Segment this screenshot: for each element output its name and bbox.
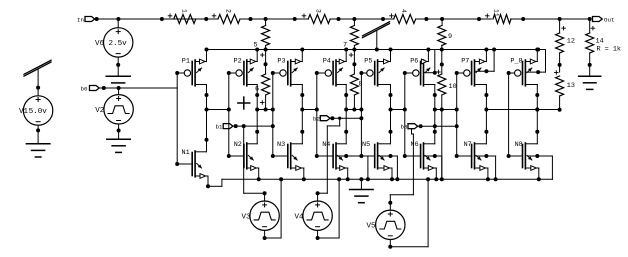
label N2: [234, 141, 242, 149]
wire gate column stage 3: [272, 73, 274, 156]
ground on gnd rail: [350, 179, 374, 202]
node N5 source: [390, 177, 394, 181]
node N6 drain: [433, 130, 437, 134]
node P3 source: [300, 48, 304, 52]
wire drain column stage 5: [390, 95, 392, 132]
wire R11 to Out: [511, 18, 590, 20]
node N4 source: [346, 177, 350, 181]
wire drain column stage 2: [256, 95, 258, 132]
label N5: [362, 141, 370, 149]
node b3 end: [455, 124, 459, 128]
node V5 gnd: [426, 177, 430, 181]
node top rail a9: [477, 17, 481, 21]
svg-text:5.0v: 5.0v: [29, 108, 48, 116]
resistor R7: [343, 19, 358, 50]
wire N8 bulk to gnd rail end: [528, 156, 553, 179]
node V3 gnd: [279, 177, 283, 181]
node N6 source: [434, 177, 438, 181]
label P3: [277, 57, 285, 65]
svg-text:R = 1k: R = 1k: [597, 46, 621, 54]
node drain stub stage 6: [433, 108, 437, 112]
svg-text:3: 3: [315, 9, 322, 13]
node R8 bottom junction: [352, 108, 356, 112]
node N1 drain: [205, 138, 209, 142]
node P2 source: [255, 48, 259, 52]
resistor R5: [254, 19, 270, 50]
node P4 source: [344, 48, 348, 52]
svg-text:V5: V5: [367, 223, 377, 231]
port b0: [81, 85, 100, 92]
node gnd rail R10: [440, 177, 444, 181]
label P6: [410, 57, 418, 65]
node stub2 left: [227, 108, 231, 112]
port b2: [313, 116, 330, 123]
node P6 source: [426, 48, 430, 52]
label V3: [242, 214, 252, 222]
wire gate column stage 6: [404, 73, 406, 156]
wire P7 bulk to vdd: [476, 50, 495, 72]
node In: [95, 17, 99, 21]
svg-text:Out: Out: [604, 16, 614, 23]
nmos N4: [317, 132, 348, 171]
svg-text:14: 14: [596, 38, 604, 46]
node P6 bulk: [433, 71, 437, 75]
node N3 drain: [300, 130, 304, 134]
wire N7 bulk to gnd: [476, 156, 496, 179]
wire N4 bulk to gnd: [337, 156, 368, 179]
node stage8 drain junction: [535, 108, 539, 112]
svg-text:N3: N3: [277, 141, 285, 149]
wire b1 to V3 plus: [244, 126, 265, 201]
pmos P4: [317, 50, 346, 96]
label P1: [182, 57, 190, 65]
svg-text:2: 2: [225, 9, 232, 13]
voltage source V5: [376, 210, 405, 239]
ground below V6: [106, 76, 130, 83]
label N3: [277, 141, 285, 149]
label P4: [323, 57, 331, 65]
node N8 bulk: [535, 154, 539, 158]
node R5 vdd: [264, 48, 268, 52]
wire N5 bulk to gnd: [379, 156, 398, 179]
wire N5 source to gnd rail: [391, 168, 393, 179]
node R10 junction: [440, 108, 444, 112]
label P2: [234, 57, 242, 65]
node P7 drain: [484, 93, 488, 97]
node N5 bulk: [389, 154, 393, 158]
node P3 gate: [271, 71, 275, 75]
resistor R8: [349, 50, 362, 110]
node drain stub stage 1: [205, 108, 209, 112]
svg-text:V2: V2: [95, 107, 104, 115]
voltage source V3: [250, 201, 279, 230]
node P1 source: [205, 48, 209, 52]
wire V1 to ground: [37, 125, 39, 143]
vdd supply symbol on rail: [363, 22, 390, 38]
node R13 bottom: [558, 108, 562, 112]
node V5 plus: [388, 201, 392, 205]
node N4 gate: [315, 154, 319, 158]
wire b3 net: [418, 125, 457, 127]
svg-text:In: In: [77, 16, 84, 23]
wire drain column stage 1: [206, 95, 208, 140]
wire gate column stage 8: [508, 73, 510, 156]
svg-text:10: 10: [449, 83, 457, 91]
label N4: [322, 141, 330, 149]
node b3 R10 tap: [433, 124, 437, 128]
node R6 mid: [264, 62, 268, 66]
node P2 drain: [255, 93, 259, 97]
label R = 1k: [597, 46, 621, 54]
svg-text:N5: N5: [362, 141, 370, 149]
svg-text:P3: P3: [277, 57, 285, 65]
wire R2 to R3: [240, 18, 308, 20]
node R14 ground: [588, 63, 592, 67]
probe plus marker: [238, 97, 250, 109]
node N1 gate: [175, 162, 179, 166]
wire V4 minus to gnd rail: [318, 179, 340, 238]
pmos P7: [457, 50, 487, 96]
node N2 gate: [227, 154, 231, 158]
wire V1 plus to vdd: [37, 69, 39, 96]
svg-text:P7: P7: [461, 57, 469, 65]
wire gate column stage 5: [360, 73, 362, 156]
node gnd rail ground stem: [359, 177, 363, 181]
voltage source V2: [104, 88, 133, 124]
resistor R6: [255, 50, 270, 110]
svg-text:P5: P5: [364, 57, 372, 65]
node b1: [234, 124, 238, 128]
svg-text:2.5v: 2.5v: [109, 40, 128, 48]
svg-text:V3: V3: [242, 214, 252, 222]
wire gate column stage 4: [316, 73, 318, 156]
wire R3 to R4: [330, 18, 394, 20]
nmos N5: [361, 132, 392, 171]
voltage source V6: [104, 19, 133, 57]
node P7 bulk vdd: [492, 48, 496, 52]
node top rail a5: [293, 17, 297, 21]
node R7 vdd: [352, 48, 356, 52]
wire stub stage4 to gate5: [346, 109, 361, 111]
wire N6 source to gnd rail: [435, 168, 437, 179]
node drain stub stage 8: [535, 108, 539, 112]
node b0: [102, 86, 106, 90]
label P8: [510, 57, 522, 65]
node N8 gate: [507, 154, 511, 158]
node V3 minus: [263, 236, 267, 240]
resistor R14 load: [586, 19, 604, 65]
node N7 gate: [455, 154, 459, 158]
svg-text:b2: b2: [313, 116, 320, 123]
wire vdd rail: [206, 49, 545, 51]
pmos P8: [509, 50, 538, 96]
node P5 gate: [359, 71, 363, 75]
node P6 drain: [433, 93, 437, 97]
wire V2 to ground: [118, 124, 120, 139]
svg-text:b0: b0: [81, 85, 88, 92]
label V2: [95, 107, 104, 115]
resistor R9: [438, 19, 452, 50]
node V2 plus: [117, 86, 121, 90]
node P1 gate: [175, 71, 179, 75]
wire P6 bulk to vdd: [425, 50, 435, 73]
svg-text:P6: P6: [410, 57, 418, 65]
node R12 R13 junction: [558, 63, 562, 67]
node R12 tap: [558, 17, 562, 21]
node V3 plus: [263, 191, 267, 195]
pmos P1: [177, 50, 206, 96]
port Out: [593, 16, 615, 23]
svg-text:13: 13: [567, 82, 575, 90]
wire N2 source to gnd rail: [258, 168, 260, 179]
node top rail a1: [116, 17, 120, 21]
wire R14 to ground: [589, 65, 591, 76]
node N8 drain: [535, 130, 539, 134]
svg-text:V4: V4: [295, 214, 305, 222]
node V4 minus: [316, 236, 320, 240]
resistor R12: [556, 19, 575, 72]
node b3: [419, 124, 423, 128]
label V4: [295, 214, 305, 222]
node N2 source: [257, 177, 261, 181]
node V4 plus: [316, 191, 320, 195]
wire N6 bulk to gnd: [425, 156, 442, 179]
svg-text:P_8: P_8: [510, 57, 522, 65]
node drain stub stage 4: [344, 108, 348, 112]
voltage source V4: [303, 201, 332, 230]
svg-text:P4: P4: [323, 57, 331, 65]
svg-text:V1: V1: [19, 108, 29, 116]
node V1 minus: [36, 128, 40, 132]
node P4 drain: [344, 93, 348, 97]
node P6 gate: [403, 71, 407, 75]
node b1 end: [271, 124, 275, 128]
wire vdd symbol stem: [376, 30, 378, 50]
node R8 mid: [352, 62, 356, 66]
wire drain column stage 7: [485, 95, 487, 132]
node N5 bulk gnd: [395, 177, 399, 181]
value 5.0v: [29, 108, 48, 116]
node V6 minus: [116, 63, 120, 67]
node N5 gate: [359, 154, 363, 158]
wire b2 net: [330, 117, 361, 119]
resistor R10: [437, 50, 457, 180]
node R9 vdd: [440, 48, 444, 52]
wire P8 bulk to vdd rail end: [527, 50, 546, 73]
wire stub stage2 to gate3: [257, 109, 273, 111]
wire V3 minus to gnd rail: [265, 179, 282, 238]
svg-text:N4: N4: [322, 141, 330, 149]
node V2 minus: [117, 129, 121, 133]
label N8: [515, 141, 523, 149]
label N7: [464, 141, 472, 149]
node P8 bulk: [536, 70, 540, 74]
node N5 drain: [389, 130, 393, 134]
node b2: [330, 116, 334, 120]
node R6 bottom junction: [264, 108, 268, 112]
wire N4 source to gnd rail: [347, 168, 349, 179]
node top rail a7: [381, 17, 385, 21]
pmos P6: [405, 50, 435, 96]
svg-text:N2: N2: [234, 141, 242, 149]
svg-text:8: 8: [359, 81, 363, 89]
label V6: [95, 40, 105, 48]
node b2 end: [359, 116, 363, 120]
node P5 source: [389, 48, 393, 52]
node stub3 right: [271, 108, 275, 112]
svg-text:11: 11: [493, 9, 500, 17]
node N1 source: [206, 184, 210, 188]
ground below V2: [107, 139, 131, 152]
wire gate column stage 7: [456, 73, 458, 156]
svg-text:P1: P1: [182, 57, 190, 65]
value 2.5v: [109, 40, 128, 48]
node stub6 right: [403, 108, 407, 112]
node drain stub stage 5: [389, 108, 393, 112]
wire drain column stage 8: [536, 95, 538, 132]
port b1: [216, 124, 233, 131]
svg-text:12: 12: [567, 38, 575, 46]
node N8 source: [537, 177, 541, 181]
svg-text:N6: N6: [411, 141, 419, 149]
node R9 tap: [440, 17, 444, 21]
wire stub stage6 to gate7: [435, 109, 457, 111]
ground below R14: [579, 76, 601, 89]
wire R4 to R11: [416, 18, 492, 20]
node N4 bulk gnd: [366, 177, 370, 181]
node N7 source: [486, 177, 490, 181]
node P2 gate: [227, 71, 231, 75]
wire V5 minus to gnd rail: [390, 179, 428, 246]
vdd supply symbol above V1: [24, 60, 51, 76]
wire N3 source to gnd rail: [303, 168, 305, 179]
node P1 drain: [205, 93, 209, 97]
node drain stub stage 7: [484, 108, 488, 112]
nmos N1: [177, 140, 208, 179]
node P8 drain: [535, 93, 539, 97]
wire gate column stage 2: [228, 73, 230, 156]
voltage source V1: [23, 96, 52, 125]
node V1 plus: [36, 86, 40, 90]
wire stub stage5 to gate6: [391, 109, 405, 111]
node V4 gnd: [337, 177, 341, 181]
node stub4 right: [315, 108, 319, 112]
node N6 gate: [403, 154, 407, 158]
node b2 jog: [338, 117, 341, 120]
wire drain column stage 3: [301, 95, 303, 132]
label N1: [182, 149, 190, 157]
resistor R13: [555, 71, 575, 110]
node stub5 right: [359, 108, 363, 112]
wire stub stage1 to gate2: [207, 109, 229, 111]
wire R1 to R2: [163, 18, 218, 20]
node N6 bulk: [433, 154, 437, 158]
wire b1 net: [233, 125, 273, 127]
port In: [77, 16, 95, 23]
label P5: [364, 57, 372, 65]
node drain stub stage 2: [255, 108, 259, 112]
wire stub stage3 to gate4: [302, 109, 317, 111]
svg-text:V6: V6: [95, 40, 105, 48]
node top rail a4: [249, 17, 253, 21]
wire N8 source to gnd rail: [538, 168, 540, 179]
node Out: [588, 17, 592, 21]
node P7 gate: [455, 71, 459, 75]
node N7 drain: [484, 130, 488, 134]
node R7 tap: [352, 17, 356, 21]
node vdd stem: [375, 48, 379, 52]
resistor R3: [302, 9, 330, 24]
node N3 gate: [271, 154, 275, 158]
node P7 source: [484, 48, 488, 52]
node P5 drain: [389, 93, 393, 97]
ground below V1: [26, 144, 50, 157]
wire b2 to V4 plus: [318, 118, 340, 201]
nmos N8: [509, 132, 539, 171]
resistor R4: [390, 9, 416, 24]
node N2 drain: [255, 130, 259, 134]
resistor R1: [168, 9, 196, 24]
svg-text:1: 1: [181, 9, 188, 13]
node P8 source: [535, 48, 539, 52]
svg-text:N8: N8: [515, 141, 523, 149]
wire drain column stage 6: [434, 95, 436, 132]
svg-text:b3: b3: [401, 124, 408, 131]
node N4 bulk: [344, 154, 348, 158]
wire N7 source to gnd rail: [487, 168, 489, 179]
wire gnd rail: [222, 178, 553, 180]
wire gate column stage 1: [176, 73, 178, 164]
svg-text:4: 4: [400, 9, 407, 13]
node P3 drain: [300, 93, 304, 97]
node P8 gate: [507, 71, 511, 75]
wire b3 to V5 plus: [390, 129, 413, 211]
node V5 minus: [388, 245, 392, 249]
pmos P3: [273, 50, 303, 96]
resistor R11: [486, 9, 512, 24]
label V5: [367, 223, 377, 231]
svg-text:P2: P2: [234, 57, 242, 65]
node N4 drain: [344, 130, 348, 134]
nmos N6: [405, 132, 437, 171]
node top rail a10: [521, 17, 525, 21]
svg-text:9: 9: [448, 33, 452, 41]
pmos P5: [361, 50, 390, 96]
svg-text:N1: N1: [182, 149, 190, 157]
label V1: [19, 108, 29, 116]
node drain stub stage 3: [300, 108, 304, 112]
node R10 mid: [440, 63, 444, 67]
node b1 V3 tap: [242, 124, 246, 128]
node N7 bulk gnd: [494, 177, 498, 181]
node P4 gate: [315, 71, 319, 75]
wire stage7 output to R13: [486, 109, 559, 111]
node N7 bulk: [484, 154, 488, 158]
wire top rail In to R1: [94, 18, 163, 20]
wire N1 source jog to gnd rail: [208, 176, 222, 186]
wire b0 net: [99, 87, 177, 89]
node top rail a2: [160, 17, 164, 21]
nmos N3: [273, 132, 304, 171]
pmos P2: [229, 50, 257, 96]
wire V6 to ground: [117, 57, 119, 76]
svg-text:b1: b1: [216, 124, 223, 131]
nmos N7: [457, 132, 488, 171]
node N3 source: [302, 177, 306, 181]
port b3: [401, 124, 418, 131]
node stub7 right: [455, 108, 459, 112]
wire drain column stage 4: [345, 95, 347, 132]
